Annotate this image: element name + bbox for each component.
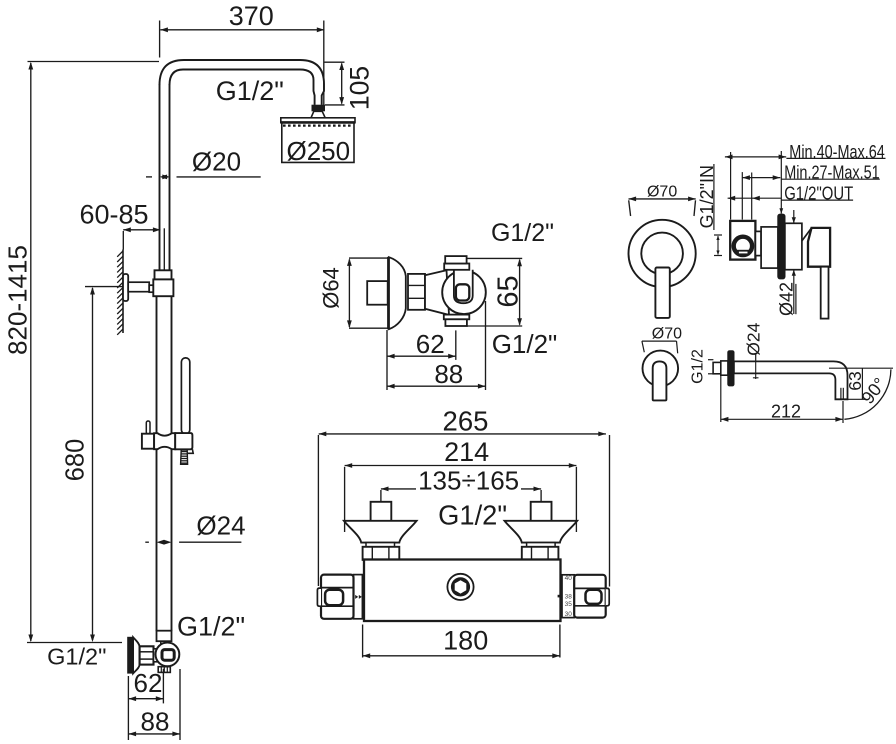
shower head projection box (282, 123, 354, 162)
svg-text:212: 212 (771, 402, 801, 422)
svg-text:Ø42: Ø42 (777, 282, 797, 316)
valve top port cap (445, 256, 466, 263)
svg-text:Ø70: Ø70 (647, 184, 677, 201)
spout front plate circle (643, 351, 679, 387)
cm trim plate (778, 214, 785, 279)
valve hex nut (408, 274, 425, 310)
valve knob window (456, 284, 469, 300)
cm handle block (808, 228, 830, 267)
svg-text:Ø24: Ø24 (196, 511, 245, 541)
svg-text:Ø70: Ø70 (652, 326, 682, 343)
mixer left handle grip window (325, 590, 343, 606)
elbow pipe into body (160, 641, 162, 648)
top bend left (160, 60, 301, 85)
spout front lever (653, 361, 667, 400)
svg-text:214: 214 (444, 437, 489, 467)
mixer right handle knob (574, 575, 606, 618)
cm front plate outer circle (629, 220, 696, 287)
hand shower handle (181, 358, 189, 434)
elbow body link (154, 649, 161, 662)
mixer left bell neck (366, 543, 395, 547)
spout outlet inner lines (840, 388, 842, 399)
slider lock knob (146, 421, 150, 434)
cm front lever (655, 268, 669, 318)
mixer right union bell (505, 521, 578, 543)
svg-text:G1/2: G1/2 (690, 349, 707, 384)
valve body cone (425, 270, 449, 315)
mixer right hex nut (522, 547, 559, 560)
mixer left inlet stub (371, 502, 392, 524)
dim 105 (325, 61, 345, 63)
shower head top plate (281, 118, 355, 123)
elbow flange cone (133, 637, 139, 673)
hand shower hose coil (181, 450, 188, 464)
mixer right bell neck (527, 543, 556, 547)
mixer left handle bump (317, 588, 321, 606)
valve top collar (444, 264, 469, 270)
shower head spray face dashes (283, 124, 353, 126)
svg-text:105: 105 (344, 66, 374, 110)
mixer centre knob (447, 574, 473, 600)
wall bracket flange (123, 274, 128, 301)
svg-text:Ø24: Ø24 (744, 322, 764, 355)
mixer left handle knob (321, 575, 354, 619)
valve bottom port cap (445, 319, 467, 326)
valve cartridge channel (454, 270, 473, 303)
svg-text:180: 180 (443, 625, 488, 655)
mixer left handle collar (354, 575, 363, 619)
svg-text:G1/2": G1/2" (177, 612, 245, 642)
valve wall stub (367, 281, 388, 305)
column slide block upper (155, 270, 172, 279)
diverter round body (156, 643, 180, 667)
shower column riser pipe (159, 84, 161, 271)
svg-text:G1/2": G1/2" (438, 500, 507, 531)
shower head neck (311, 111, 325, 118)
svg-text:G1/2": G1/2" (216, 76, 284, 106)
mixer left hex nut (363, 547, 400, 560)
svg-text:Min.40-Max.64: Min.40-Max.64 (789, 142, 885, 162)
column slide block lower (153, 279, 173, 296)
svg-text:680: 680 (62, 439, 90, 482)
svg-text:Ø250: Ø250 (286, 136, 350, 166)
cm lever bar (821, 267, 829, 319)
svg-text:370: 370 (229, 1, 274, 31)
svg-text:62: 62 (134, 668, 163, 698)
mixer right handle collar (562, 575, 574, 618)
svg-text:38: 38 (565, 594, 573, 601)
mixer off marks (355, 595, 358, 599)
svg-text:40: 40 (565, 575, 573, 582)
svg-text:88: 88 (434, 359, 463, 389)
mixer right inlet stub (531, 502, 552, 524)
cm front inner circle (641, 233, 683, 275)
spout tube (734, 361, 848, 399)
svg-text:G1/2": G1/2" (491, 219, 554, 247)
wall hatching (117, 251, 123, 335)
spout wall stub (713, 362, 721, 373)
cm body supply ring (734, 237, 752, 255)
svg-text:35: 35 (565, 601, 573, 608)
dim 820-1415 vertical dimension (28, 61, 160, 63)
spout angle arc 90deg (844, 369, 891, 419)
cm inlet ticks (714, 234, 722, 236)
cm handle wedge (802, 228, 811, 240)
svg-text:265: 265 (443, 405, 489, 436)
svg-text:30: 30 (565, 611, 573, 618)
svg-text:135÷165: 135÷165 (418, 466, 519, 496)
shower head connector nut (312, 105, 326, 112)
slider bracket left lock (142, 434, 154, 449)
svg-text:65: 65 (492, 275, 524, 307)
svg-text:820-1415: 820-1415 (3, 245, 33, 355)
cm body block (730, 221, 755, 260)
svg-text:Ø20: Ø20 (192, 146, 241, 176)
mixer body (364, 560, 561, 622)
cm sleeve (761, 227, 778, 268)
elbow supply collar (157, 631, 172, 642)
svg-text:Ø64: Ø64 (319, 267, 344, 309)
valve body circle (442, 271, 486, 315)
wall bracket arm collar (149, 285, 154, 292)
svg-text:88: 88 (141, 707, 170, 737)
mixer left union bell (344, 521, 417, 543)
slider bracket saddle (154, 433, 175, 449)
svg-text:60-85: 60-85 (79, 200, 148, 230)
elbow hex nut (140, 646, 154, 664)
cm dim D42 (793, 210, 795, 223)
svg-text:G1/2": G1/2" (492, 329, 558, 359)
hand shower holder (175, 433, 192, 449)
hose outlet (158, 667, 170, 673)
valve wall flange bell (389, 257, 406, 329)
valve dim 65 (467, 257, 522, 259)
mixer right handle bump (606, 588, 610, 605)
wall line (122, 250, 124, 334)
shower rail lower tube (156, 296, 158, 631)
cm outlet stub (755, 231, 761, 255)
diverter knob window (162, 650, 174, 661)
svg-text:62: 62 (416, 329, 445, 359)
dim 680 vertical dimension (85, 286, 123, 288)
cm escutcheon (785, 223, 802, 269)
spout wall flange (728, 351, 734, 386)
valve bottom collar (444, 315, 470, 320)
elbow wall flange plate (127, 637, 133, 674)
holder hook (183, 449, 194, 453)
mixer 38 stop mark (558, 595, 563, 598)
svg-text:G1/2": G1/2" (47, 644, 106, 670)
mixer right handle grip window (586, 590, 602, 604)
top bend right and down tube (300, 60, 324, 105)
wall bracket arm (128, 282, 149, 292)
